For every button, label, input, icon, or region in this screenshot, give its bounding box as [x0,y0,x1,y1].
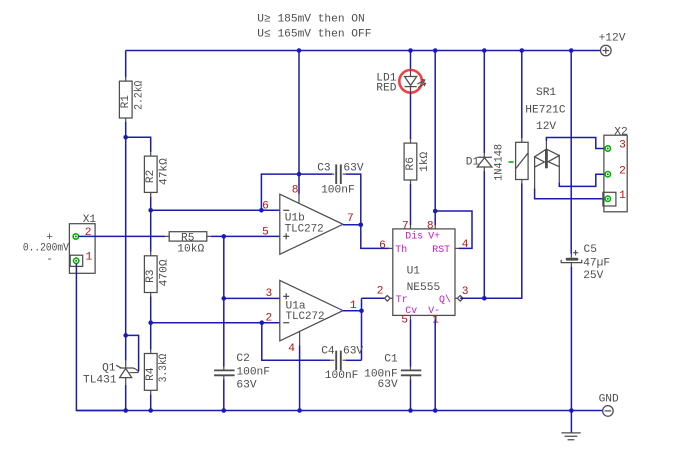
op-amp U1a [265,280,356,355]
svg-text:R3: R3 [145,269,157,282]
RST stub [455,247,459,249]
pin5 Cv stub [410,315,412,319]
wire tap to U1b pin6 [151,209,280,211]
pin8 stub inside [298,194,300,203]
wire to ground symbol [570,411,572,433]
svg-text:HE721C: HE721C [525,104,566,116]
LED LD1 [376,70,425,95]
wire U1b pin7 output [343,224,361,226]
wire C4 right to output column [346,359,362,361]
pin8 stub [434,225,436,229]
capacitor C1 [364,354,421,392]
wire C2 bottom to rail [223,379,225,410]
resistor R6 [404,139,431,184]
pin7 stub [410,225,412,229]
wire Cv to C1 [410,319,412,366]
svg-text:7: 7 [402,221,409,233]
wire V+ node to C3 [299,173,332,175]
connector X1 [23,214,97,273]
node output/Tr [359,309,364,314]
resistor R5 [165,232,211,256]
wire R4 bottom to rail [150,394,152,410]
svg-text:47µF: 47µF [583,257,610,269]
wire C2 column [223,236,225,366]
svg-text:TL431: TL431 [83,375,117,387]
svg-text:1: 1 [350,300,357,312]
svg-text:6: 6 [379,240,386,252]
node rail C1 [408,408,413,413]
node Q/D1 [482,296,487,301]
svg-text:4: 4 [288,343,295,355]
wire C1 to rail [410,379,412,410]
wire X1 pin2 to R5 [79,235,166,237]
node R3/R4 tap [148,320,153,325]
node rail GND [569,408,574,413]
svg-text:U≤ 165mV then OFF: U≤ 165mV then OFF [257,29,371,41]
wire U1a output [343,310,362,312]
svg-text:+12V: +12V [599,33,626,45]
node divider tap [148,208,153,213]
wire tap to U1a pin2 [151,322,280,324]
wire pin6 node up and right to V+ node [261,174,299,210]
svg-text:U1: U1 [407,266,421,278]
svg-text:63V: 63V [236,379,256,391]
node V+ branch [297,172,302,177]
svg-text:R2: R2 [145,170,157,183]
svg-text:3: 3 [265,288,272,300]
node R5/C2 [222,234,227,239]
node X1 pin2 [73,234,78,239]
svg-text:X2: X2 [614,126,627,138]
wire junction to R2 top [126,137,151,152]
pin Tr diamond [385,296,393,302]
node rail V- [433,408,438,413]
svg-text:5: 5 [262,227,269,239]
capacitor C4 [321,346,363,382]
svg-text:7: 7 [347,213,354,225]
wire X1 pin1 to ground rail [76,264,125,411]
svg-text:100nF: 100nF [236,367,270,379]
wire V+ node down to U1b pin8 [298,51,300,195]
svg-text:U≥ 185mV then ON: U≥ 185mV then ON [257,14,364,26]
svg-text:3: 3 [462,286,469,298]
resistor R3 [144,252,170,297]
wire bottom ground rail [76,410,571,412]
node rail pin4 [297,408,302,413]
node rail top pin8 [433,48,438,53]
op-amp U1b [262,184,354,254]
wire C3 right down to pin7 net [346,174,389,248]
wire output node vertical [361,298,363,360]
svg-text:3.3kΩ: 3.3kΩ [158,354,170,383]
svg-text:1N4148: 1N4148 [494,144,506,181]
svg-text:1: 1 [86,251,93,263]
resistor R4 [144,350,170,395]
svg-text:C3: C3 [317,163,330,175]
svg-text:12V: 12V [536,121,556,133]
svg-text:2: 2 [85,227,92,239]
node rail top C5 [569,48,574,53]
Th stub [389,247,393,249]
wire to NE555 Tr pin [362,297,385,299]
svg-text:RED: RED [376,83,396,95]
svg-text:63V: 63V [378,379,398,391]
pin Q diamond [455,296,463,302]
svg-text:RST: RST [432,244,450,255]
node U1a pin3 tap [222,296,227,301]
svg-text:1: 1 [619,190,626,202]
wire V+ pin8 column [434,51,436,226]
svg-text:2: 2 [265,312,272,324]
svg-text:Tr: Tr [396,294,408,305]
diode D1 [466,144,506,181]
wire Q1 ref branch [126,335,139,371]
wire Q1 anode to rail [125,385,127,411]
svg-text:2.2kΩ: 2.2kΩ [134,80,146,109]
wire U1a pin4 to rail [299,346,301,411]
wire R1 column top [125,51,127,78]
node rail top LED [408,48,413,53]
node X2 pin2 [605,172,610,177]
wire RST loop [435,211,472,248]
wire C4 line [262,323,331,361]
svg-text:6: 6 [262,201,269,213]
wire LED column from rail [410,51,412,70]
svg-text:C4: C4 [321,346,335,358]
svg-text:2: 2 [619,165,626,177]
node rail top coil [520,48,525,53]
wire tap to U1a pin3 [224,297,280,299]
svg-text:100nF: 100nF [325,370,359,382]
svg-text:-: - [46,254,53,266]
svg-text:Q1: Q1 [102,362,116,374]
capacitor C5 [561,244,610,282]
wire R1 bottom to node [125,122,127,137]
node pin2 branch [260,320,265,325]
svg-text:63V: 63V [343,346,363,358]
svg-text:8: 8 [292,184,299,196]
svg-text:Th: Th [395,244,407,255]
node rail top D1 [482,48,487,53]
svg-text:C1: C1 [384,354,398,366]
node rail C2 [222,408,227,413]
svg-text:D1: D1 [466,156,480,168]
wire left column to Q1 node [125,137,127,335]
svg-text:0..200mV: 0..200mV [23,243,69,255]
svg-text:TLC272: TLC272 [285,223,324,235]
+12V supply symbol [599,33,626,56]
svg-text:63V: 63V [343,163,363,175]
svg-text:3: 3 [619,139,626,151]
svg-text:TLC272: TLC272 [286,311,325,323]
wire top +12V rail [126,50,601,52]
capacitor C3 [317,163,364,197]
svg-text:R4: R4 [145,367,157,381]
svg-text:100nF: 100nF [321,184,355,196]
node rail R4 [148,408,153,413]
wire R6 to NE555 pin7 [410,184,412,225]
svg-text:8: 8 [427,221,434,233]
svg-text:SR1: SR1 [536,87,556,99]
node rail top U1b V+ [297,48,302,53]
wire contact common to X2 pin3 [546,138,605,149]
relay SR1 coil [516,87,566,183]
wire D1 column [483,51,485,299]
svg-text:GND: GND [599,393,619,405]
wire C5 column top [570,51,572,254]
svg-text:X1: X1 [83,214,97,226]
wire node to Q1 [125,335,127,360]
svg-text:R1: R1 [120,95,132,109]
wire contact NO to X2 pin2 [559,174,605,186]
svg-text:R6: R6 [405,157,417,170]
node X2 pin3 [605,146,610,151]
wire R2 bottom to node [150,196,152,210]
transistor Q1 TL431 [83,361,139,387]
resistor R1 [119,77,145,122]
wire R2 node down to R3 [150,210,152,252]
svg-text:1kΩ: 1kΩ [419,151,431,171]
svg-text:4: 4 [462,239,469,251]
svg-text:470Ω: 470Ω [158,259,170,286]
node X1 pin1 [74,258,79,263]
svg-text:C5: C5 [584,244,597,256]
pin1 V- stub [434,315,436,319]
wire C5 to ground rail [570,267,572,411]
svg-text:5: 5 [401,315,408,327]
svg-text:Q\: Q\ [439,294,451,305]
svg-text:C2: C2 [236,353,249,365]
ground [561,433,580,440]
resistor R2 [144,152,170,196]
node X2 pin1 [605,196,610,201]
wire R3 bottom to node [150,297,152,323]
relay SR1 contact [535,141,560,189]
svg-text:25V: 25V [583,270,603,282]
node U1b output [359,223,364,228]
svg-text:R5: R5 [181,232,194,244]
wire R5 to U1b pin5 [211,235,280,237]
relay coil pin mark [509,161,514,163]
node pin6 branch [259,208,264,213]
wire LED to R6 [410,93,412,139]
wire contact NC to X2 pin1 [535,189,606,199]
wire GND stub [571,410,602,412]
wire coil top to rail [521,51,523,139]
pin4 stub [299,332,301,346]
svg-text:2: 2 [377,286,384,298]
svg-text:NE555: NE555 [407,282,441,294]
node R1/R2 junction [123,135,128,140]
wire Q output net [460,184,522,299]
capacitor C2 [214,353,270,391]
IC U1 NE555 [377,221,469,327]
node pin8/RST [433,209,438,214]
GND supply symbol [599,393,619,416]
wire V- to rail [434,319,436,410]
svg-text:10kΩ: 10kΩ [177,244,204,256]
node Q1 cathode [123,333,128,338]
wire R4 top [150,323,152,350]
node rail Q1 [123,408,128,413]
connector X2 [603,126,628,211]
svg-text:47kΩ: 47kΩ [158,158,170,185]
